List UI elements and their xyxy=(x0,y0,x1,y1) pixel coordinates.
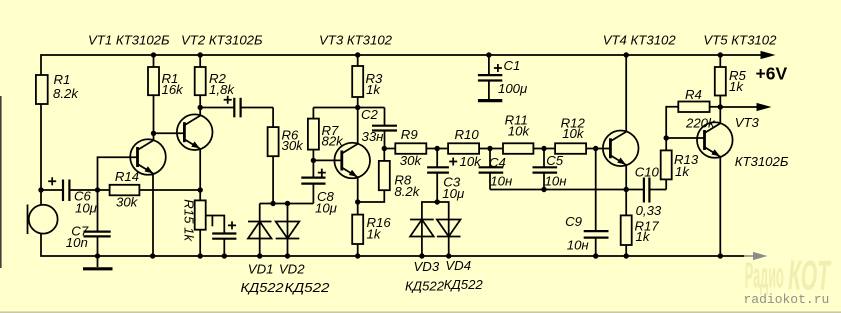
resistor R13 1k xyxy=(661,138,699,190)
svg-text:16k: 16k xyxy=(162,82,185,97)
node VT2 emitter / R14 / R15 xyxy=(198,187,203,192)
capacitor C10 0,33 xyxy=(626,165,666,219)
svg-text:VD3: VD3 xyxy=(414,259,440,274)
svg-text:10k: 10k xyxy=(562,126,585,141)
node VT2 collector / R2 / coupling cap xyxy=(198,105,203,110)
wire to VT2 base xyxy=(154,132,185,134)
capacitor C1 100u xyxy=(478,55,528,101)
bypass capacitor at R15 (electrolytic) xyxy=(206,216,237,257)
resistor R10 10k xyxy=(437,127,490,169)
resistor R17 1k xyxy=(621,215,660,256)
svg-text:10k: 10k xyxy=(508,124,531,139)
wire top +6V rail xyxy=(41,55,761,75)
wire node A horizontal xyxy=(313,107,384,109)
node ladder input xyxy=(382,146,387,151)
svg-text:КД522: КД522 xyxy=(285,280,331,295)
capacitor C6 10u xyxy=(41,177,110,215)
wire VD1/VD2/C8 top xyxy=(260,203,314,205)
wire to VT5 base xyxy=(666,137,704,139)
svg-text:C1: C1 xyxy=(504,58,521,73)
svg-text:8.2k: 8.2k xyxy=(53,86,79,101)
diode VD2 КД522 xyxy=(276,204,331,296)
svg-text:R4: R4 xyxy=(685,87,702,102)
svg-text:VT4 КТ3102: VT4 КТ3102 xyxy=(603,33,677,48)
svg-text:C4: C4 xyxy=(489,155,506,170)
svg-text:R9: R9 xyxy=(401,127,419,142)
svg-text:VT3: VT3 xyxy=(735,115,760,130)
capacitor C4 10n xyxy=(479,149,513,190)
transistor VT2 xyxy=(177,114,213,150)
diode VD1 КД522 xyxy=(241,204,285,296)
node R11/R12/C5 xyxy=(541,146,546,151)
wire C4/C5 common to VT4 emitter xyxy=(490,189,626,191)
svg-text:1k: 1k xyxy=(367,227,382,242)
svg-text:10n: 10n xyxy=(66,235,88,250)
svg-text:10н: 10н xyxy=(490,174,512,189)
svg-text:30k: 30k xyxy=(282,138,305,153)
node R12/C9/VT4 base xyxy=(593,146,598,151)
capacitor C8 10u xyxy=(301,160,337,215)
svg-text:КД522: КД522 xyxy=(444,277,484,292)
svg-text:R10: R10 xyxy=(455,127,480,142)
resistor R15 1k xyxy=(181,199,205,256)
transistor VT3 xyxy=(334,143,370,179)
wire VT5 collector to node xyxy=(719,107,721,123)
wire to VT4 base xyxy=(596,148,611,150)
svg-text:100μ: 100μ xyxy=(498,81,528,96)
svg-text:VD1: VD1 xyxy=(248,262,274,277)
svg-text:10μ: 10μ xyxy=(442,186,465,201)
scan artifact bottom edge xyxy=(0,311,841,313)
wire to VT3 base xyxy=(313,159,341,161)
resistor R4 220k xyxy=(666,87,720,138)
node mic/C6/R1 xyxy=(38,187,43,192)
transistor VT3 output (КТ3102Б) xyxy=(697,115,789,169)
svg-text:10μ: 10μ xyxy=(315,201,338,216)
wire VT3 emitter down xyxy=(357,177,359,214)
svg-text:VT5 КТ3102: VT5 КТ3102 xyxy=(703,33,777,48)
node R7/C8/VT3 base xyxy=(311,158,316,163)
svg-text:1k: 1k xyxy=(729,79,744,94)
resistor R6 30k xyxy=(268,108,305,204)
svg-text:radiokot.ru: radiokot.ru xyxy=(744,292,830,307)
svg-text:VD4: VD4 xyxy=(445,258,471,273)
+6V arrowhead xyxy=(761,51,776,59)
node C5 bottom xyxy=(541,187,546,192)
svg-text:+6V: +6V xyxy=(756,64,788,84)
node C7 ground xyxy=(95,253,100,258)
node A: R3/R7/C2/VT3 collector xyxy=(355,105,360,110)
svg-text:VT2 КТ3102Б: VT2 КТ3102Б xyxy=(181,33,263,48)
wire VT4 emitter down xyxy=(625,165,627,215)
svg-text:30k: 30k xyxy=(400,153,423,168)
svg-text:1,8k: 1,8k xyxy=(209,82,235,97)
resistor R3 1k xyxy=(352,55,383,108)
wire VT1 emitter to ground xyxy=(152,174,154,257)
node C3/VD3/VD4 xyxy=(435,199,440,204)
gray output arrow on ground rail xyxy=(744,252,767,260)
svg-text:VT1 КТ3102Б: VT1 КТ3102Б xyxy=(88,33,170,48)
transistor VT1 xyxy=(130,139,166,175)
svg-text:8.2k: 8.2k xyxy=(394,184,420,199)
ground symbol xyxy=(83,256,113,269)
coupling capacitor VT2-R6 (electrolytic, unlabeled) xyxy=(200,96,273,118)
capacitor C3 10u xyxy=(427,149,465,203)
svg-text:КТ3102Б: КТ3102Б xyxy=(735,154,789,169)
node R9/R10/C3 xyxy=(435,146,440,151)
capacitor C2 33n xyxy=(361,107,397,149)
node VT3 emitter / R16 / R8 xyxy=(355,199,360,204)
resistor R12 10k xyxy=(544,116,596,154)
svg-text:VD2: VD2 xyxy=(279,262,305,277)
svg-text:Радио: Радио xyxy=(745,255,784,296)
resistor R16 1k xyxy=(352,215,391,256)
node R6 bottom xyxy=(270,201,275,206)
svg-text:30k: 30k xyxy=(116,195,139,210)
wire VT2 emitter down xyxy=(199,149,201,201)
wire VT3 collector up to node A xyxy=(357,108,359,144)
wire output with arrowhead xyxy=(720,106,757,108)
svg-text:КД522: КД522 xyxy=(405,279,445,294)
resistor R11 10k xyxy=(490,113,544,154)
resistor R9 30k xyxy=(384,127,437,168)
node R4/R5/out/VT5 collector xyxy=(718,104,723,109)
svg-text:33н: 33н xyxy=(362,129,384,144)
svg-text:R15 1k: R15 1k xyxy=(181,199,196,242)
svg-text:1k: 1k xyxy=(636,229,651,244)
node VT4 emitter / R17 / C10 xyxy=(624,187,629,192)
svg-text:C9: C9 xyxy=(565,214,583,229)
resistor R14 30k xyxy=(110,169,201,210)
svg-text:R1: R1 xyxy=(54,72,71,87)
svg-text:КД522: КД522 xyxy=(241,280,285,295)
node C6/R14/C7/base VT1 xyxy=(95,187,100,192)
capacitor C9 10n xyxy=(565,149,608,257)
svg-text:C5: C5 xyxy=(546,153,564,168)
resistor R5 1k xyxy=(715,55,747,107)
wire VT5 emitter to ground rail xyxy=(719,157,721,256)
scan artifact left edge xyxy=(0,96,2,268)
diode VD4 КД522 xyxy=(437,202,484,292)
svg-text:10н: 10н xyxy=(567,238,589,253)
wire VT1 collector up xyxy=(153,95,155,140)
wire bottom ground rail xyxy=(41,234,744,256)
svg-text:10μ: 10μ xyxy=(75,201,98,216)
node VT1 collector / R1 / VT2 base xyxy=(151,131,156,136)
svg-text:0,33: 0,33 xyxy=(636,203,662,218)
resistor R2 1,8k xyxy=(195,55,236,108)
microphone BM1 xyxy=(28,190,58,234)
svg-text:C2: C2 xyxy=(361,107,379,122)
resistor R7 82k xyxy=(308,108,344,161)
svg-text:10н: 10н xyxy=(545,174,567,189)
resistor R8 8.2k xyxy=(358,149,421,203)
transistor VT4 xyxy=(603,131,639,167)
svg-text:1k: 1k xyxy=(675,164,690,179)
wire VT2 collector to R2 xyxy=(199,108,201,116)
svg-text:C10: C10 xyxy=(635,165,660,180)
diode VD3 КД522 xyxy=(405,202,445,294)
wire VT4 collector to rail xyxy=(625,55,627,132)
wire to VT1 base xyxy=(98,157,138,190)
capacitor C5 10n xyxy=(533,149,567,190)
node R10/R11/C4 xyxy=(487,146,492,151)
resistor R1 8.2k xyxy=(36,72,79,190)
svg-text:VT3 КТ3102: VT3 КТ3102 xyxy=(319,33,393,48)
node R13/R4/VT5 base xyxy=(664,135,669,140)
node VD2 top xyxy=(285,201,290,206)
svg-text:R14: R14 xyxy=(115,169,139,184)
capacitor C7 10n xyxy=(66,190,111,256)
resistor R1 16k xyxy=(148,55,184,97)
svg-text:1k: 1k xyxy=(366,82,381,97)
